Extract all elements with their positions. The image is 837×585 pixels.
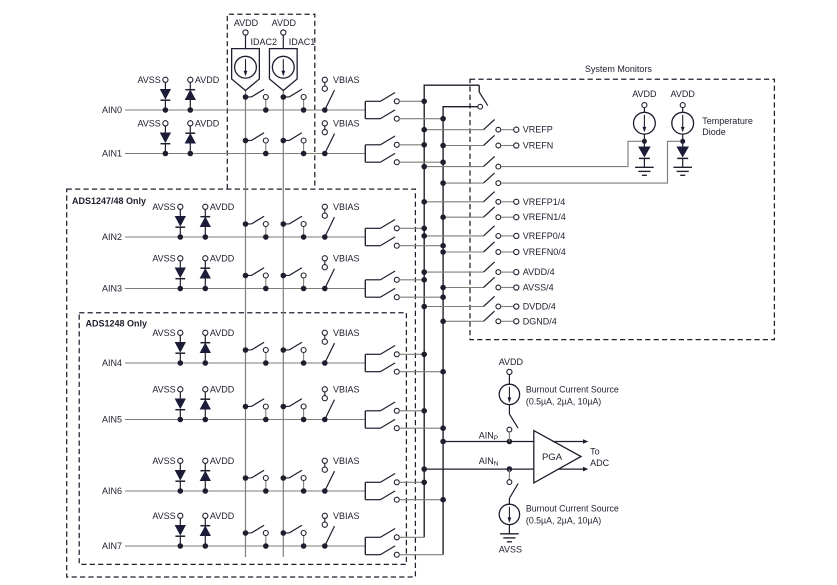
diode AVDD clamp (AIN4) [200,328,234,366]
wire AIN4 input line [125,362,365,364]
terminal DGND/4 [501,316,557,326]
svg-text:AVSS: AVSS [137,75,160,85]
terminal AVDD (burnout source) [499,357,524,384]
svg-text:ADS1248 Only: ADS1248 Only [86,319,148,329]
svg-text:Temperature: Temperature [702,116,753,126]
wire mux fork bracket (S_AIN3) [364,280,366,297]
svg-text:VBIAS: VBIAS [333,384,360,394]
switch S_AIN5 to AINN bus (top) [365,402,399,413]
switch S_AIN7 to AINN bus (top) [365,529,399,540]
diode AVSS clamp (AIN0) [137,75,170,113]
diode temperature D2 [677,147,688,167]
svg-text:AVDD: AVDD [210,384,235,394]
svg-text:AVDD: AVDD [210,328,235,338]
svg-text:AVDD: AVDD [499,357,524,367]
svg-text:AVSS: AVSS [152,456,175,466]
svg-text:IDAC1: IDAC1 [289,37,316,47]
current source burnout top [499,384,519,404]
diode AVSS clamp (AIN3) [152,253,185,291]
wire burnout bottom to ground [508,525,510,534]
svg-text:AVDD: AVDD [210,511,235,521]
switch monitor AVSS/4 [484,277,501,290]
wire mux fork bracket (S_AIN1) [364,145,366,162]
svg-text:VBIAS: VBIAS [333,511,360,521]
switch S_IDAC2_AIN2 [243,216,269,240]
wire monitor pole AVSS/4 [440,285,483,291]
wire S_AIN2 top branch to AINN bus [399,226,427,232]
wire mux fork bracket (S_AIN4) [364,354,366,371]
svg-text:System Monitors: System Monitors [585,64,653,74]
label burnout bottom [526,504,619,526]
svg-text:AVDD: AVDD [632,89,657,99]
label To ADC [590,446,610,468]
switch S_AIN4 to AINP bus (bottom) [365,363,399,374]
wire monitor pole VREFN [440,143,483,149]
svg-text:AVDD: AVDD [210,456,235,466]
diode AVDD clamp (AIN2) [200,202,234,240]
switch S_IDAC1_AIN5 [281,399,307,423]
switch S_AIN0 to AINP bus (bottom) [365,110,399,121]
wire AIN1 input line [125,153,365,155]
switch S_IDAC1_AIN6 [281,470,307,494]
wire S_AIN5 bottom branch to AINP bus [399,425,446,431]
svg-text:AVDD/4: AVDD/4 [523,267,555,277]
svg-text:AVDD: AVDD [272,18,297,28]
diode AVSS clamp (AIN1) [137,118,170,156]
switch S_IDAC1_AIN1 [281,133,307,157]
svg-text:ADS1247/48 Only: ADS1247/48 Only [72,196,146,206]
wire monitor pole AVDD/4 [421,269,483,275]
svg-text:DGND/4: DGND/4 [523,316,557,326]
switch S_IDAC1_AIN0 [281,89,307,113]
wire IDAC1 bus [282,91,284,558]
switch monitor VREFN0/4 [484,242,501,255]
wire S_AIN0 bottom branch to AINP bus [399,116,446,122]
terminal VREFN0/4 [501,247,566,257]
svg-text:Burnout Current Source: Burnout Current Source [526,504,619,514]
wire AIN2 input line [125,236,365,238]
wire mux fork bracket (S_AIN2) [364,228,366,245]
svg-text:AVDD: AVDD [210,202,235,212]
switch VBIAS (AIN2) [322,202,360,240]
switch monitor DGND/4 [484,311,501,324]
wire mux fork bracket (S_AIN6) [364,482,366,499]
ground (temp diode 2) [673,167,692,175]
wire AINP line [440,439,533,445]
dashed box IDAC section [227,14,314,189]
terminal AVDD (temp diode 2) [671,89,696,112]
wire mux fork bracket (S_AIN7) [364,537,366,554]
dashed box ADS1247/48 Only [67,189,416,577]
switch monitor DVDD/4 [484,296,501,309]
switch S_AIN1 to AINP bus (bottom) [365,153,399,164]
svg-text:AVSS: AVSS [137,118,160,128]
wire temp diode 2 anode [680,134,685,147]
switch monitor temp diode 2 [484,173,501,186]
svg-text:(0.5µA, 2µA, 10µA): (0.5µA, 2µA, 10µA) [526,515,601,525]
switch S_IDAC2_AIN7 [243,525,269,549]
wire monitor pole temp diode 1 [421,164,483,170]
svg-text:AIN0: AIN0 [102,105,122,115]
switch S_AIN3 to AINP bus (bottom) [365,288,399,299]
wire S_AIN3 top branch to AINN bus [399,277,427,283]
wire temp diode 1 sense [501,141,642,166]
svg-text:To: To [590,446,600,456]
wire monitor pole DGND/4 [440,319,483,325]
diode temperature D1 [639,147,650,167]
ground (AVSS burnout) [500,534,519,542]
current source burnout bottom [499,504,519,524]
svg-text:AVSS: AVSS [152,202,175,212]
current DAC IDAC2 [232,37,277,91]
svg-text:AVSS: AVSS [152,511,175,521]
diode AVSS clamp (AIN4) [152,328,185,366]
terminal VREFP0/4 [501,231,566,241]
switch S_AIN4 to AINN bus (top) [365,346,399,357]
svg-text:ADC: ADC [590,458,610,468]
switch S_AIN0 to AINN bus (top) [365,93,399,104]
diode AVSS clamp (AIN6) [152,456,185,494]
switch monitor VREFP1/4 [484,192,501,205]
terminal VREFP [501,125,553,135]
wire AIN6 input line [125,490,365,492]
switch S_IDAC2_AIN0 [243,89,269,113]
switch S_AIN3 to AINN bus (top) [365,271,399,282]
switch VBIAS (AIN6) [322,456,360,494]
ground (temp diode 1) [635,167,654,175]
wire temp diode 2 sense [501,141,681,183]
svg-text:VBIAS: VBIAS [333,202,360,212]
svg-text:VREFP: VREFP [523,125,553,135]
diode AVDD clamp (AIN1) [185,118,219,156]
svg-text:(0.5µA, 2µA, 10µA): (0.5µA, 2µA, 10µA) [526,396,601,406]
switch VBIAS (AIN1) [322,118,360,156]
wire S_AIN7 bottom branch to AINP bus [399,554,443,556]
wire AIN0 input line [125,109,365,111]
wire PGA output bottom (to ADC) [558,467,589,472]
terminal VREFN [501,141,554,151]
svg-text:Diode: Diode [702,127,726,137]
wire S_AIN0 top branch to AINN bus [399,99,427,105]
terminal AVDD/4 [501,267,555,277]
switch reference mux (top) [478,85,488,109]
wire PGA output top (to ADC) [553,439,589,444]
switch S_AIN7 to AINP bus (bottom) [365,546,399,557]
svg-text:VBIAS: VBIAS [333,456,360,466]
switch VBIAS (AIN3) [322,253,360,291]
diode AVDD clamp (AIN7) [200,511,234,549]
wire IDAC2 bus [245,91,247,558]
switch S_AIN2 to AINP bus (bottom) [365,237,399,248]
diode AVSS clamp (AIN7) [152,511,185,549]
switch monitor VREFP0/4 [484,226,501,239]
switch VBIAS (AIN7) [322,511,360,549]
wire monitor pole DVDD/4 [421,304,483,310]
switch S_IDAC1_AIN2 [281,216,307,240]
svg-text:AIN6: AIN6 [102,486,122,496]
switch VBIAS (AIN4) [322,328,360,366]
switch S_IDAC2_AIN4 [243,342,269,366]
svg-text:VBIAS: VBIAS [333,328,360,338]
wire AIN5 input line [125,419,365,421]
op-amp PGA [534,431,581,483]
svg-text:AIN3: AIN3 [102,284,122,294]
svg-text:VBIAS: VBIAS [333,118,360,128]
diode AVDD clamp (AIN5) [200,384,234,422]
svg-text:AVSS: AVSS [152,328,175,338]
terminal DVDD/4 [501,302,556,312]
svg-text:AIN5: AIN5 [102,415,122,425]
switch S_IDAC2_AIN6 [243,470,269,494]
switch VBIAS (AIN5) [322,384,360,422]
svg-text:AIN4: AIN4 [102,358,122,368]
wire S_AIN3 bottom branch to AINP bus [399,294,446,300]
wire monitor pole VREFN0/4 [440,249,483,255]
switch monitor VREFN [484,135,501,148]
switch S_IDAC2_AIN5 [243,399,269,423]
svg-text:IDAC2: IDAC2 [251,37,278,47]
switch S_IDAC1_AIN7 [281,525,307,549]
dashed box ADS1248 Only [79,313,406,565]
svg-text:VREFP0/4: VREFP0/4 [523,231,566,241]
switch burnout top [507,405,518,442]
wire AIN7 input line [125,545,365,547]
wire S_AIN4 bottom branch to AINP bus [399,369,446,375]
switch monitor VREFP [484,120,501,133]
svg-text:AIN2: AIN2 [102,232,122,242]
svg-text:AVSS: AVSS [152,384,175,394]
wire S_AIN7 top branch to AINN bus [399,536,424,538]
wire S_AIN6 top branch to AINN bus [399,480,427,486]
current DAC IDAC1 [269,37,315,91]
svg-text:AVSS: AVSS [152,253,175,263]
svg-text:AVSS: AVSS [499,545,522,555]
terminal VREFP1/4 [501,197,566,207]
svg-text:AVDD: AVDD [234,18,259,28]
dashed box System Monitors [470,79,774,339]
svg-text:AVDD: AVDD [210,253,235,263]
switch burnout bottom [507,469,518,504]
svg-text:PGA: PGA [542,452,563,463]
diode AVSS clamp (AIN2) [152,202,185,240]
wire monitor pole VREFN1/4 [440,214,483,220]
svg-text:DVDD/4: DVDD/4 [523,302,556,312]
switch S_IDAC2_AIN3 [243,268,269,292]
wire AINP bus (right) [443,107,478,555]
wire monitor pole VREFP0/4 [421,233,483,239]
switch S_AIN6 to AINP bus (bottom) [365,491,399,502]
wire S_AIN1 bottom branch to AINP bus [399,159,446,165]
terminal AVSS/4 [501,283,554,293]
switch monitor VREFN1/4 [484,207,501,220]
wire S_AIN6 bottom branch to AINP bus [399,497,446,503]
diode AVDD clamp (AIN6) [200,456,234,494]
svg-text:VREFN: VREFN [523,141,554,151]
svg-text:Burnout Current Source: Burnout Current Source [526,385,619,395]
wire AINN line [421,466,533,472]
wire S_AIN5 top branch to AINN bus [399,408,427,414]
svg-text:AIN1: AIN1 [102,149,122,159]
switch S_AIN5 to AINP bus (bottom) [365,419,399,430]
svg-text:AVDD: AVDD [195,75,220,85]
wire S_AIN1 top branch to AINN bus [399,142,427,148]
svg-text:AVDD: AVDD [195,118,220,128]
svg-text:VREFN1/4: VREFN1/4 [523,212,566,222]
switch S_AIN6 to AINN bus (top) [365,474,399,485]
current source temp diode bias 2 [672,112,694,134]
svg-text:AIN7: AIN7 [102,541,122,551]
terminal AVDD (IDAC1) [272,18,297,49]
svg-text:AVSS/4: AVSS/4 [523,283,554,293]
diode AVDD clamp (AIN0) [185,75,219,113]
switch VBIAS (AIN0) [322,75,360,113]
wire mux fork bracket (S_AIN5) [364,411,366,428]
wire S_AIN4 top branch to AINN bus [399,352,427,358]
wire mux fork bracket (S_AIN0) [364,101,366,118]
svg-text:AVDD: AVDD [671,89,696,99]
switch S_AIN2 to AINN bus (top) [365,220,399,231]
svg-text:VREFN0/4: VREFN0/4 [523,247,566,257]
terminal VREFN1/4 [501,212,566,222]
label Temperature Diode [702,116,753,137]
svg-text:VBIAS: VBIAS [333,253,360,263]
wire AINN bus (left) [424,85,479,537]
switch monitor temp diode 1 [484,156,501,169]
wire monitor pole VREFP1/4 [421,199,483,205]
current source temp diode bias 1 [634,112,656,134]
wire monitor pole VREFP [421,127,483,133]
wire AIN3 input line [125,288,365,290]
switch monitor AVDD/4 [484,262,501,275]
wire monitor pole temp diode 2 [440,180,483,186]
switch S_IDAC1_AIN3 [281,268,307,292]
switch S_IDAC2_AIN1 [243,133,269,157]
wire temp diode 1 anode [642,134,647,147]
switch S_AIN1 to AINN bus (top) [365,136,399,147]
terminal AVDD (temp diode 1) [632,89,657,112]
svg-text:VREFP1/4: VREFP1/4 [523,197,566,207]
label burnout top [526,385,619,407]
terminal AVDD (IDAC2) [234,18,259,49]
switch S_IDAC1_AIN4 [281,342,307,366]
svg-text:VBIAS: VBIAS [333,75,360,85]
diode AVDD clamp (AIN3) [200,253,234,291]
wire S_AIN2 bottom branch to AINP bus [399,243,446,249]
diode AVSS clamp (AIN5) [152,384,185,422]
